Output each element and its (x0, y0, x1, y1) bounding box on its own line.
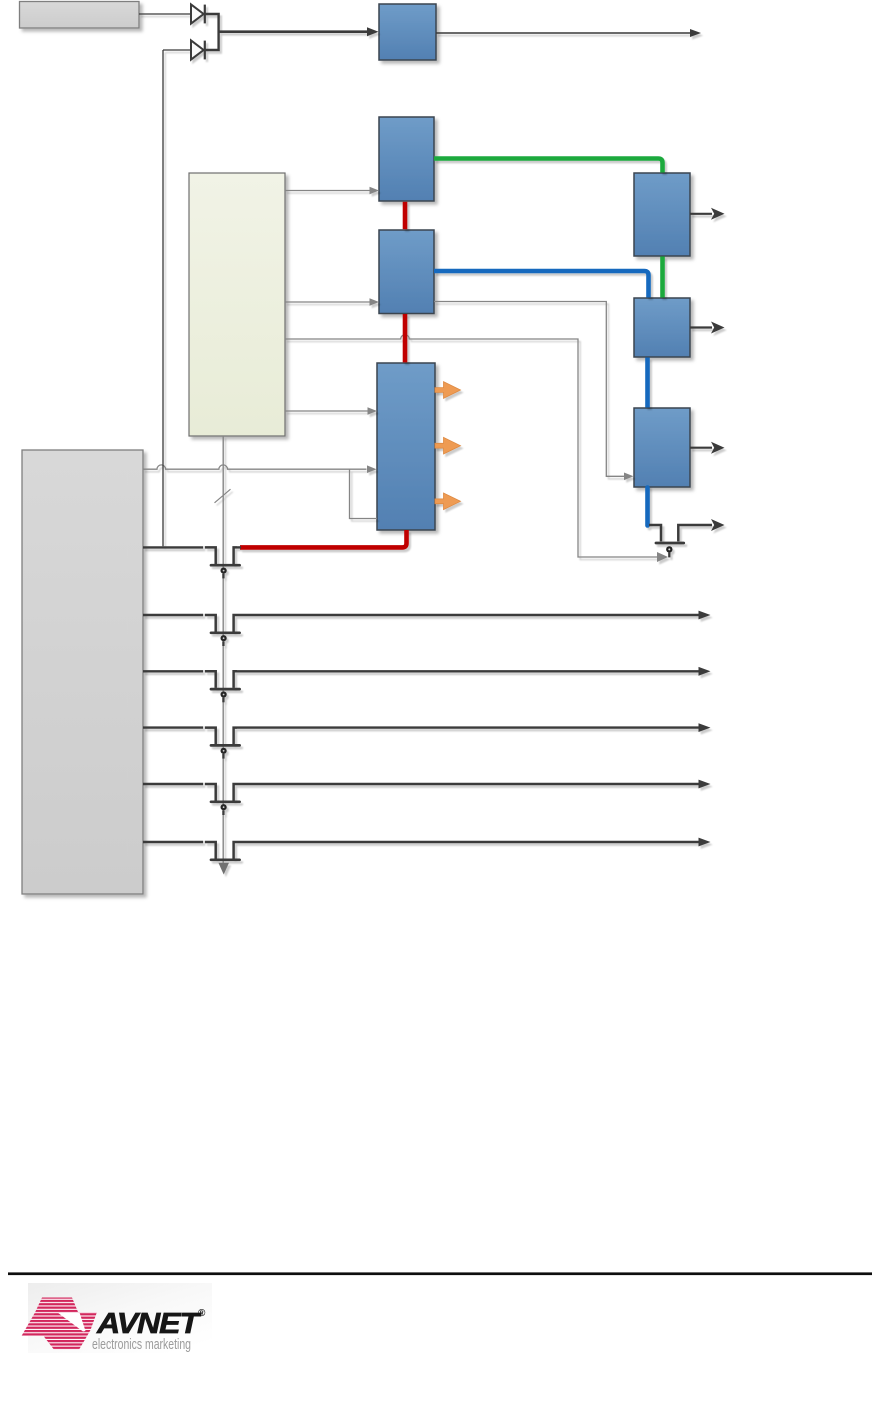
svg-text:AVNET: AVNET (96, 1308, 202, 1340)
svg-text:®: ® (198, 1308, 206, 1319)
svg-text:electronics marketing: electronics marketing (92, 1337, 191, 1353)
